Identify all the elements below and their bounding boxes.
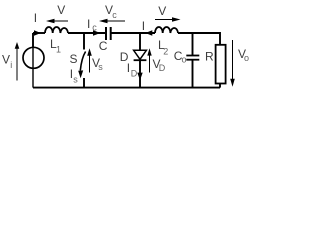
wire top rail from L2 to top-right corner and down to R [178,33,220,45]
arrowhead Vs (up) [87,48,92,56]
arrowhead current I on top rail (right) [34,30,41,36]
voltage source Vi circle [23,47,44,68]
svg-text:V: V [158,4,166,18]
wire through source and bottom lead [32,48,34,88]
arrow Vi shaft [16,48,18,81]
wire diode branch bottom [139,59,141,87]
arrow V over L1 shaft [54,20,69,22]
wire R bottom [219,84,221,88]
arrow V over L2 shaft [155,19,173,21]
svg-text:R: R [205,50,214,64]
arrowhead VD (up) [147,48,151,55]
arrow Vs shaft [89,55,91,73]
switch S blade arc [80,52,85,71]
svg-text:C: C [99,39,108,53]
arrow Vc shaft [107,20,126,22]
svg-text:1: 1 [56,45,61,55]
arrowhead current I before L2 (left) [145,30,152,36]
diode D cathode bar [134,59,147,61]
svg-text:c: c [112,10,117,20]
arrow Vo shaft [232,40,234,80]
svg-text:I: I [142,19,145,33]
svg-text:V: V [57,3,65,17]
svg-text:I: I [127,61,130,75]
svg-text:s: s [73,75,78,85]
wire diode branch top [139,33,141,50]
svg-text:D: D [159,63,166,73]
svg-text:I: I [87,17,90,31]
svg-text:S: S [70,52,78,66]
wire source top lead [32,33,34,48]
wire C_o branch bottom [192,60,194,88]
wire switch branch bottom [83,78,85,88]
wire top rail from C to L2 (through diode node) [112,32,156,34]
svg-text:c: c [92,23,97,33]
arrowhead current ID on diode wire (down) [137,73,142,81]
svg-text:V: V [2,53,10,67]
arrowhead Vo (down) [230,79,235,87]
wire top rail from L1 to capacitor C [68,32,105,34]
arrowhead switch Is (down) [78,70,83,78]
arrowhead V over L1 (left) [46,19,55,24]
capacitor C [106,27,111,40]
wire bottom rail [33,87,220,89]
resistor R [216,45,226,84]
arrowhead Vi (up) [15,42,20,49]
svg-text:2: 2 [163,47,168,57]
arrowhead V over L2 (right) [172,17,181,22]
svg-text:s: s [98,62,103,72]
inductor L1 [45,27,68,33]
svg-text:i: i [10,60,12,70]
inductor L2 [155,27,178,33]
arrow VD shaft [149,55,151,73]
wire top rail from source corner to L1 [33,32,45,34]
arrowhead Vc (left) [99,19,108,24]
diode D triangle [134,50,147,59]
svg-text:o: o [182,55,187,65]
wire switch branch top [83,33,85,50]
capacitor C_o [186,56,199,60]
svg-text:D: D [131,69,138,79]
svg-text:o: o [244,53,249,63]
wire C_o branch top [192,33,194,56]
svg-text:I: I [34,11,37,25]
arrowhead current Ic on top rail (right) [93,30,101,36]
